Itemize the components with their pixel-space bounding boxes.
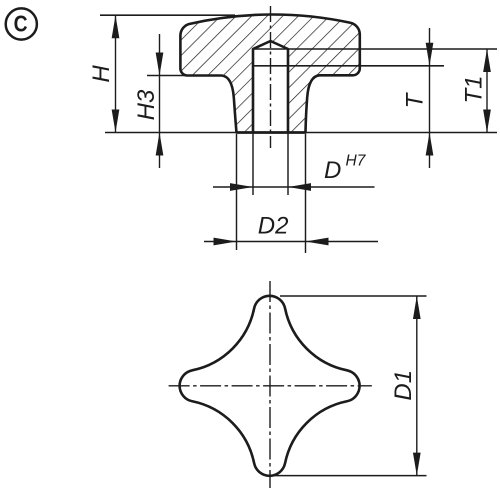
palm grip top view: four-lobed outline — [180, 296, 360, 476]
vertical centerline — [269, 281, 271, 488]
horizontal centerline — [169, 385, 372, 387]
D1 extension lines — [280, 295, 427, 297]
hub bottom face (thick baseline segment) — [237, 131, 306, 134]
svg-text:C: C — [14, 12, 28, 37]
svg-text:D1: D1 — [390, 370, 417, 401]
dimension D1 — [416, 296, 418, 476]
extension line flange bottom / H3 reference — [147, 75, 189, 77]
svg-text:H3: H3 — [133, 89, 160, 120]
position letter C in circle — [6, 8, 37, 39]
svg-text:H: H — [88, 65, 115, 83]
bore wall extension lines — [252, 133, 254, 196]
svg-text:H7: H7 — [346, 153, 367, 170]
dimension T — [429, 28, 431, 168]
extension line top of knob (H reference) — [100, 14, 235, 16]
dimension D2 (hub) — [204, 241, 378, 243]
extension line bore flat / T1 reference — [253, 48, 497, 50]
svg-text:T: T — [402, 91, 429, 108]
baseline — [105, 132, 497, 134]
knob section: hatched T-profile with bore — [180, 15, 359, 133]
svg-text:T1: T1 — [461, 75, 488, 103]
dimension D H7 (bore) — [213, 186, 375, 188]
svg-text:D2: D2 — [258, 213, 289, 240]
dimension H3 — [159, 34, 161, 168]
dimension T1 — [486, 49, 488, 133]
dimension H — [115, 15, 117, 132]
extension line thread end / T reference — [253, 65, 444, 67]
hub edge extension lines — [236, 134, 238, 250]
svg-text:D: D — [324, 157, 341, 184]
centerline of bore — [270, 6, 272, 148]
